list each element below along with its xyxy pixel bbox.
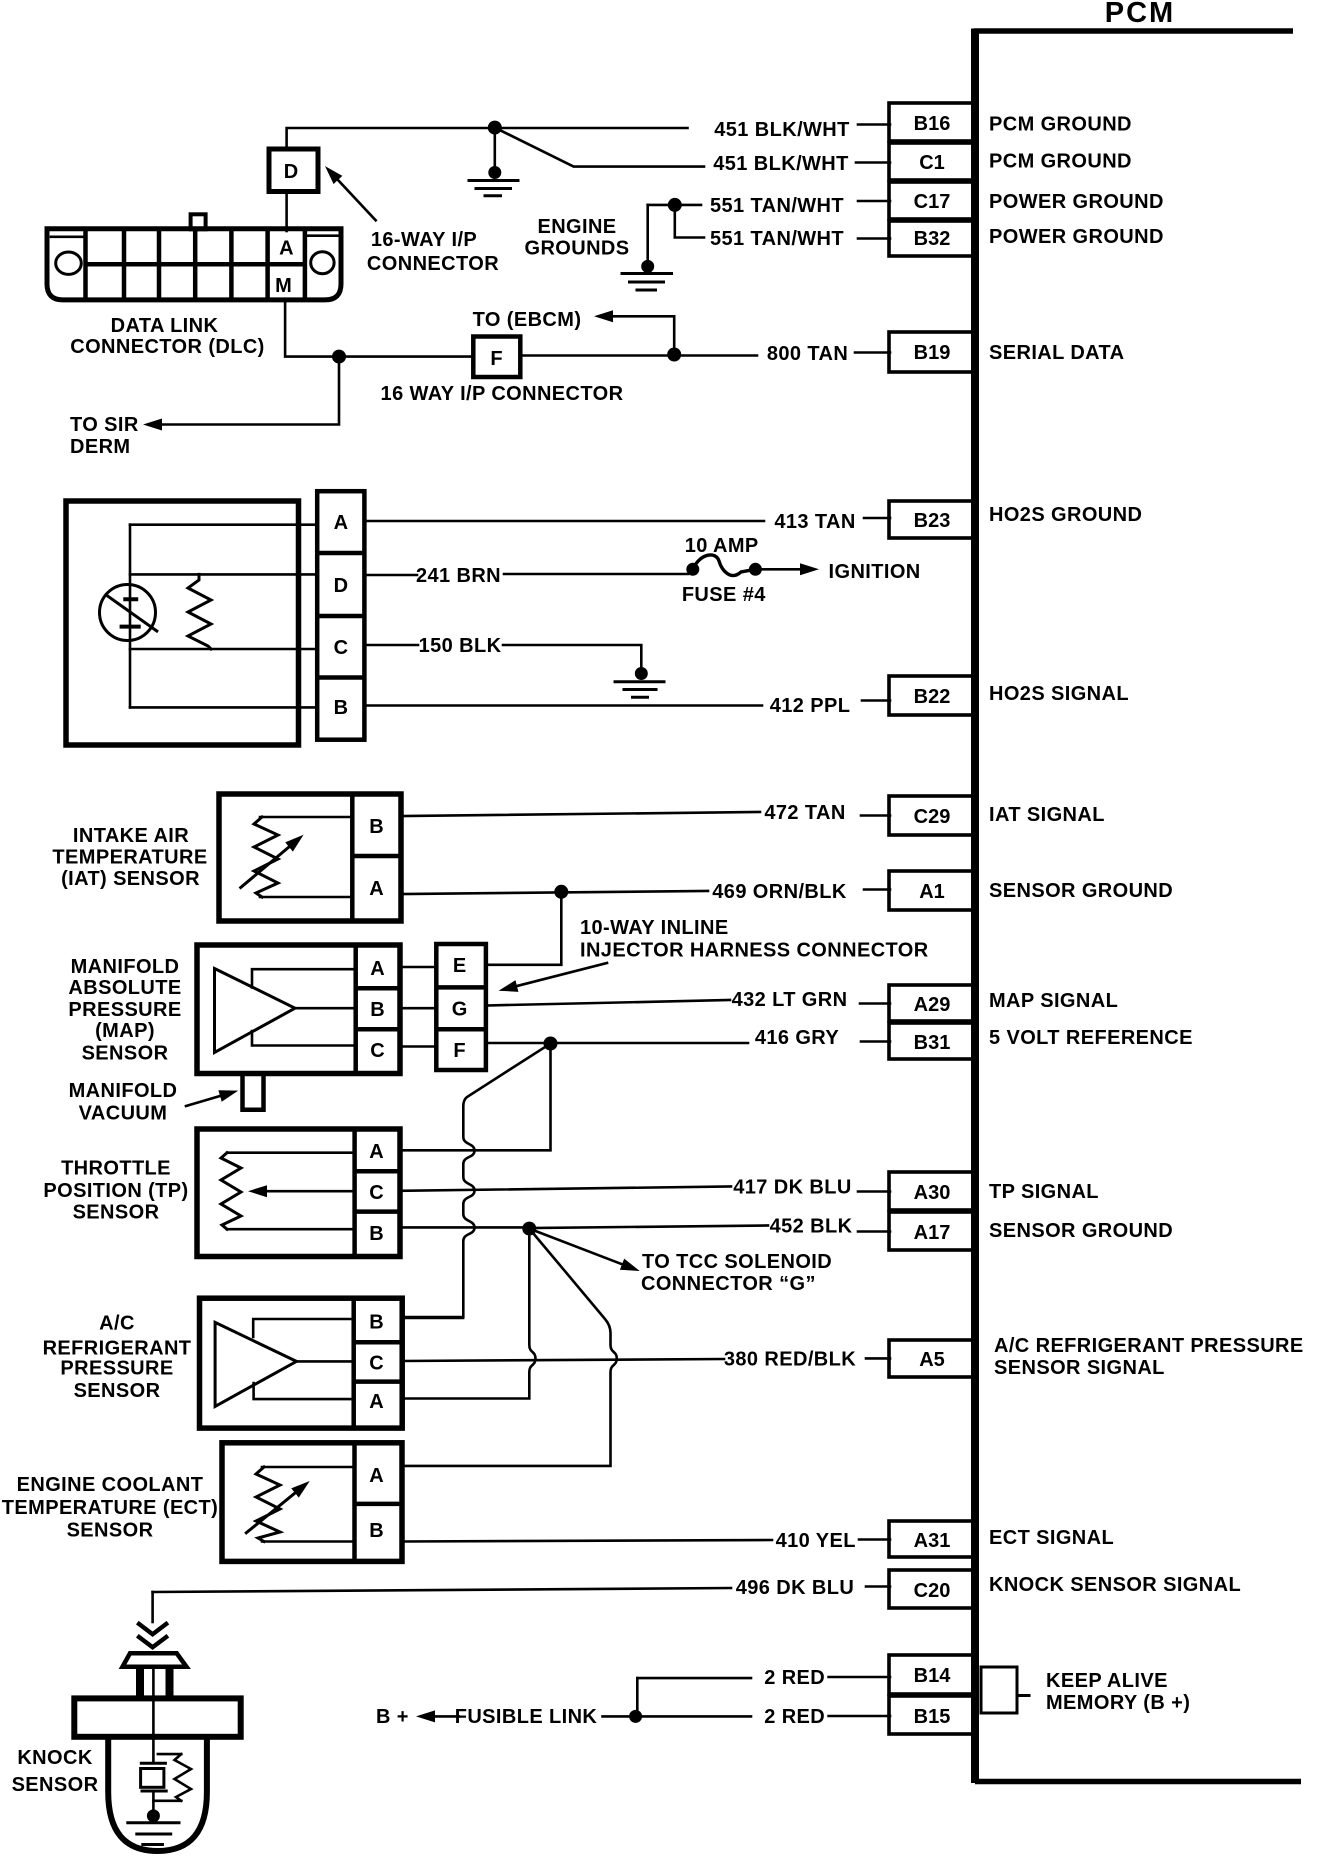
svg-text:A31: A31 bbox=[914, 1530, 951, 1552]
pointer arrow to injector harness connector bbox=[517, 963, 607, 986]
pin box C1 bbox=[889, 143, 975, 180]
pointer arrow to D box (16-WAY I/P CONNECTOR) bbox=[338, 180, 376, 220]
data link connector (DLC) body bbox=[47, 229, 341, 300]
wire D box to DLC pin A bbox=[285, 192, 288, 232]
wire MAP A to E bbox=[400, 966, 436, 969]
svg-text:A/C: A/C bbox=[99, 1313, 135, 1335]
svg-text:TO TCC SOLENOID: TO TCC SOLENOID bbox=[642, 1251, 832, 1273]
svg-text:A: A bbox=[369, 1141, 383, 1163]
svg-text:PCM GROUND: PCM GROUND bbox=[989, 114, 1132, 136]
svg-text:TEMPERATURE (ECT): TEMPERATURE (ECT) bbox=[2, 1497, 218, 1519]
svg-text:TEMPERATURE: TEMPERATURE bbox=[52, 847, 207, 869]
MAP internal wires bbox=[252, 969, 356, 1045]
TP pin strip bbox=[355, 1130, 400, 1255]
ECT pin strip bbox=[355, 1444, 403, 1561]
A/C transducer triangle bbox=[215, 1322, 296, 1406]
svg-text:IGNITION: IGNITION bbox=[829, 561, 921, 583]
MAP sensor outer box bbox=[197, 945, 400, 1074]
svg-text:MANIFOLD: MANIFOLD bbox=[69, 1080, 178, 1102]
svg-text:472 TAN: 472 TAN bbox=[764, 802, 845, 824]
junction node on 5 volt reference wire bbox=[544, 1037, 558, 1051]
svg-text:KNOCK: KNOCK bbox=[17, 1747, 92, 1769]
IAT sensor outer box bbox=[219, 794, 401, 921]
svg-text:A: A bbox=[370, 958, 384, 980]
svg-text:FUSE #4: FUSE #4 bbox=[682, 584, 766, 606]
wire 452 BLK TP pin B to A17 bbox=[400, 1226, 768, 1229]
manifold vacuum port bbox=[243, 1074, 264, 1110]
knock sensor ground bbox=[128, 1809, 179, 1844]
svg-text:A: A bbox=[369, 878, 383, 900]
wire DLC pin M to F connector bbox=[285, 299, 473, 357]
arrow to TO TCC SOLENOID CONNECTOR G bbox=[529, 1229, 622, 1265]
16-way I/P connector D box bbox=[269, 149, 318, 192]
svg-text:SENSOR GROUND: SENSOR GROUND bbox=[989, 880, 1173, 902]
pin box B22 bbox=[889, 676, 975, 715]
HO2S pin strip bbox=[317, 491, 364, 740]
knock sensor neck bbox=[140, 1667, 170, 1700]
wire 551 TAN/WHT to PCM C17 bbox=[648, 204, 701, 207]
ECT sensor outer box bbox=[222, 1443, 402, 1562]
pin box B32 bbox=[889, 221, 975, 256]
svg-text:DERM: DERM bbox=[70, 436, 131, 458]
DLC mounting ear dividers bbox=[86, 229, 305, 298]
svg-text:10-WAY INLINE: 10-WAY INLINE bbox=[580, 917, 729, 939]
svg-text:A29: A29 bbox=[914, 994, 951, 1016]
pin box B19 bbox=[889, 332, 975, 372]
svg-text:416 GRY: 416 GRY bbox=[755, 1027, 840, 1049]
svg-text:KEEP ALIVE: KEEP ALIVE bbox=[1046, 1670, 1168, 1692]
svg-text:FUSIBLE LINK: FUSIBLE LINK bbox=[455, 1706, 598, 1728]
svg-text:PRESSURE: PRESSURE bbox=[60, 1358, 173, 1380]
svg-text:GROUNDS: GROUNDS bbox=[524, 238, 629, 260]
svg-text:410 YEL: 410 YEL bbox=[776, 1530, 856, 1552]
wire 451 BLK/WHT: 16-way I/P connector D to PCM B16 bbox=[287, 128, 688, 149]
svg-text:2 RED: 2 RED bbox=[764, 1667, 825, 1689]
wire TO SIR DERM with arrow bbox=[162, 357, 339, 425]
TP sensor outer box bbox=[197, 1129, 400, 1257]
svg-text:451 BLK/WHT: 451 BLK/WHT bbox=[714, 119, 850, 141]
pin box A17 bbox=[889, 1212, 975, 1250]
DLC ear shading lines bbox=[51, 236, 339, 237]
svg-text:B: B bbox=[369, 816, 383, 838]
wire 241 BRN HO2S pin D to fuse bbox=[364, 574, 417, 577]
arrow to manifold vacuum port bbox=[186, 1096, 220, 1106]
pin box B31 bbox=[889, 1023, 975, 1059]
svg-text:INJECTOR HARNESS CONNECTOR: INJECTOR HARNESS CONNECTOR bbox=[580, 940, 929, 962]
HO2S sensor outer box bbox=[66, 501, 299, 745]
wire 451 BLK/WHT to PCM C1 bbox=[495, 128, 704, 167]
svg-text:INTAKE AIR: INTAKE AIR bbox=[73, 825, 189, 847]
svg-text:150 BLK: 150 BLK bbox=[419, 635, 502, 657]
svg-text:F: F bbox=[453, 1040, 465, 1062]
svg-text:SENSOR: SENSOR bbox=[67, 1520, 154, 1542]
MAP transducer triangle bbox=[215, 969, 296, 1053]
wire A/C pin B stub to 5V branch bbox=[402, 1317, 463, 1320]
ground (150 BLK) bbox=[615, 667, 664, 697]
pin box C29 bbox=[889, 796, 975, 835]
svg-text:MANIFOLD: MANIFOLD bbox=[71, 956, 180, 978]
HO2S sensing element circle bbox=[100, 585, 156, 641]
HO2S internal bus wire bbox=[129, 525, 132, 708]
svg-text:ENGINE: ENGINE bbox=[537, 216, 616, 238]
wire 413 TAN HO2S pin A to B23 bbox=[364, 520, 764, 523]
wire 410 YEL ECT pin B to A31 bbox=[402, 1540, 772, 1542]
fuse #4 10 amp bbox=[686, 555, 762, 576]
svg-text:THROTTLE: THROTTLE bbox=[61, 1158, 171, 1180]
svg-text:POSITION (TP): POSITION (TP) bbox=[43, 1180, 188, 1202]
knock sensor center lead bbox=[152, 1668, 155, 1763]
svg-text:C: C bbox=[334, 637, 348, 659]
svg-text:REFRIGERANT: REFRIGERANT bbox=[43, 1338, 192, 1360]
pin box B16 bbox=[889, 103, 975, 141]
pin box A30 bbox=[889, 1172, 975, 1210]
wire 417 DK BLU TP pin C to A30 bbox=[400, 1187, 731, 1191]
junction node on fusible link wire bbox=[629, 1710, 642, 1723]
svg-text:A30: A30 bbox=[914, 1182, 951, 1204]
svg-text:10 AMP: 10 AMP bbox=[685, 535, 759, 557]
A/C refrigerant pressure sensor outer box bbox=[200, 1298, 403, 1428]
svg-text:SENSOR: SENSOR bbox=[74, 1380, 161, 1402]
16 way I/P connector F box bbox=[473, 337, 520, 378]
DLC left mounting hole bbox=[56, 252, 82, 274]
pin box A29 bbox=[889, 985, 975, 1021]
svg-text:DATA LINK: DATA LINK bbox=[111, 315, 219, 337]
svg-text:C17: C17 bbox=[914, 191, 951, 213]
wire 150 BLK HO2S pin C to ground bbox=[364, 644, 418, 647]
svg-text:C1: C1 bbox=[919, 152, 945, 174]
wire sensor ground branch to ECT pin A (hop over 380 wire) bbox=[402, 1229, 617, 1466]
PCM box top edge bbox=[974, 28, 1293, 34]
svg-text:551 TAN/WHT: 551 TAN/WHT bbox=[710, 228, 844, 250]
svg-text:C20: C20 bbox=[914, 1580, 951, 1602]
svg-text:SENSOR: SENSOR bbox=[12, 1774, 99, 1796]
PCM box left edge bbox=[971, 29, 979, 1784]
svg-text:ENGINE COOLANT: ENGINE COOLANT bbox=[17, 1474, 204, 1496]
DLC top tab bbox=[191, 214, 206, 229]
svg-text:C29: C29 bbox=[914, 806, 951, 828]
wire 380 RED/BLK A/C pin C to A5 bbox=[402, 1359, 724, 1361]
svg-text:451 BLK/WHT: 451 BLK/WHT bbox=[713, 153, 849, 175]
svg-text:ABSOLUTE: ABSOLUTE bbox=[68, 977, 181, 999]
DLC pin grid bbox=[86, 229, 305, 298]
wire 5V reference branch to TP pin A bbox=[400, 1044, 551, 1151]
wire MAP C to F bbox=[400, 1045, 436, 1048]
svg-text:ECT SIGNAL: ECT SIGNAL bbox=[989, 1527, 1114, 1549]
svg-text:B: B bbox=[334, 697, 348, 719]
wire 551 TAN/WHT to PCM B32 bbox=[675, 205, 704, 238]
knock lead lower segment bbox=[152, 1791, 155, 1812]
svg-text:412 PPL: 412 PPL bbox=[770, 695, 851, 717]
HO2S heater resistor bbox=[188, 574, 211, 649]
svg-text:SENSOR: SENSOR bbox=[82, 1043, 169, 1065]
HO2S pin D internal wire bbox=[130, 573, 317, 576]
wire 496 DK BLU knock sensor to C20 bbox=[153, 1588, 731, 1592]
svg-text:SERIAL DATA: SERIAL DATA bbox=[989, 342, 1125, 364]
svg-text:C: C bbox=[370, 1040, 384, 1062]
wire sensor ground branch to A/C pin A (hop over 380 wire) bbox=[402, 1229, 536, 1399]
junction node on sensor ground (452 BLK) bbox=[522, 1222, 536, 1236]
svg-text:B23: B23 bbox=[914, 510, 951, 532]
HO2S element slash bbox=[106, 595, 157, 631]
wire 5V reference branch to A/C pin B (crossover hops) bbox=[402, 1044, 551, 1318]
10-way inline injector harness connector E G F bbox=[436, 944, 486, 1070]
wire 416 GRY F to B31 bbox=[486, 1042, 748, 1045]
svg-text:B15: B15 bbox=[914, 1706, 951, 1728]
wire 412 PPL HO2S pin B to B22 bbox=[364, 704, 762, 707]
svg-text:B16: B16 bbox=[914, 113, 951, 135]
svg-text:B19: B19 bbox=[914, 342, 951, 364]
junction node on sensor ground wire bbox=[554, 885, 568, 899]
svg-text:MAP SIGNAL: MAP SIGNAL bbox=[989, 990, 1118, 1012]
arrow B+ fusible link bbox=[603, 1715, 634, 1718]
svg-text:D: D bbox=[334, 575, 348, 597]
svg-text:SENSOR: SENSOR bbox=[73, 1202, 160, 1224]
pin box C17 bbox=[889, 182, 975, 219]
IAT thermistor bbox=[241, 817, 353, 897]
svg-text:C: C bbox=[369, 1182, 383, 1204]
svg-text:A1: A1 bbox=[919, 881, 945, 903]
wire 800 TAN serial data F to B19 bbox=[521, 354, 758, 357]
wire 472 TAN IAT pin B to C29 bbox=[401, 812, 760, 816]
HO2S pin A internal wire bbox=[130, 523, 317, 526]
svg-text:B: B bbox=[369, 1223, 383, 1245]
arrow to IGNITION bbox=[755, 568, 800, 571]
A/C internal wires bbox=[253, 1319, 354, 1399]
engine ground 2 (551 circuit) bbox=[622, 205, 672, 290]
pin box A1 bbox=[889, 871, 975, 910]
svg-text:B31: B31 bbox=[914, 1032, 951, 1054]
HO2S pin C internal wire bbox=[130, 648, 317, 651]
HO2S pin B internal wire bbox=[130, 706, 317, 709]
svg-text:A: A bbox=[369, 1391, 383, 1413]
IAT pin strip bbox=[352, 795, 401, 920]
svg-text:D: D bbox=[284, 161, 298, 183]
svg-text:800 TAN: 800 TAN bbox=[767, 343, 848, 365]
junction node on serial data wire bbox=[667, 348, 681, 362]
wire 469 ORN/BLK IAT pin A to A1 bbox=[401, 891, 708, 894]
MAP pin strip bbox=[356, 946, 400, 1072]
svg-text:TO (EBCM): TO (EBCM) bbox=[473, 309, 582, 331]
svg-text:PCM GROUND: PCM GROUND bbox=[989, 151, 1132, 173]
knock piezo element box bbox=[141, 1769, 164, 1788]
svg-text:TO SIR: TO SIR bbox=[70, 414, 139, 436]
svg-text:496 DK BLU: 496 DK BLU bbox=[736, 1577, 854, 1599]
svg-text:551 TAN/WHT: 551 TAN/WHT bbox=[710, 195, 844, 217]
knock sensor body shell bbox=[108, 1737, 207, 1851]
svg-text:A/C REFRIGERANT PRESSURE: A/C REFRIGERANT PRESSURE bbox=[994, 1335, 1304, 1357]
pin box B14 bbox=[889, 1655, 975, 1694]
svg-text:B: B bbox=[370, 999, 384, 1021]
wire MAP B to G bbox=[400, 1007, 436, 1010]
svg-text:16 WAY I/P CONNECTOR: 16 WAY I/P CONNECTOR bbox=[381, 383, 624, 405]
wire corner down to fusible link line bbox=[636, 1678, 639, 1716]
junction node on 451 wire bbox=[488, 121, 502, 135]
knock internal resistor bbox=[153, 1754, 191, 1801]
svg-text:PCM: PCM bbox=[1105, 0, 1175, 29]
svg-text:417 DK BLU: 417 DK BLU bbox=[733, 1177, 851, 1199]
svg-text:KNOCK SENSOR SIGNAL: KNOCK SENSOR SIGNAL bbox=[989, 1574, 1241, 1596]
junction node on 551 wire bbox=[668, 198, 682, 212]
svg-text:CONNECTOR “G”: CONNECTOR “G” bbox=[641, 1273, 816, 1295]
svg-text:CONNECTOR (DLC): CONNECTOR (DLC) bbox=[70, 336, 265, 358]
svg-text:A: A bbox=[279, 238, 293, 260]
knock sensor feed wire bbox=[151, 1592, 154, 1622]
knock sensor flange bbox=[74, 1698, 240, 1736]
keep alive memory bracket bbox=[981, 1667, 1029, 1713]
svg-text:SENSOR SIGNAL: SENSOR SIGNAL bbox=[994, 1357, 1165, 1379]
svg-text:E: E bbox=[453, 955, 466, 977]
pin box B15 bbox=[889, 1696, 975, 1734]
svg-text:MEMORY (B +): MEMORY (B +) bbox=[1046, 1692, 1190, 1714]
svg-text:5 VOLT REFERENCE: 5 VOLT REFERENCE bbox=[989, 1027, 1193, 1049]
svg-text:B14: B14 bbox=[914, 1665, 952, 1687]
svg-text:G: G bbox=[452, 999, 468, 1021]
svg-text:F: F bbox=[490, 348, 502, 370]
svg-text:TP SIGNAL: TP SIGNAL bbox=[989, 1181, 1099, 1203]
wire 2 RED to B14 bbox=[637, 1677, 751, 1680]
A/C pin strip bbox=[354, 1299, 402, 1427]
engine ground 1 (451 circuit) bbox=[469, 128, 518, 196]
svg-text:POWER GROUND: POWER GROUND bbox=[989, 191, 1164, 213]
ECT thermistor bbox=[246, 1467, 354, 1542]
svg-text:A: A bbox=[369, 1465, 383, 1487]
svg-text:432 LT GRN: 432 LT GRN bbox=[732, 989, 848, 1011]
knock sensor cap bbox=[123, 1653, 187, 1667]
svg-text:A5: A5 bbox=[919, 1349, 945, 1371]
wire TO (EBCM) with arrow bbox=[613, 316, 674, 354]
pin box B23 bbox=[889, 501, 975, 538]
svg-text:413 TAN: 413 TAN bbox=[774, 511, 855, 533]
svg-text:HO2S SIGNAL: HO2S SIGNAL bbox=[989, 683, 1129, 705]
svg-text:CONNECTOR: CONNECTOR bbox=[367, 253, 499, 275]
svg-text:VACUUM: VACUUM bbox=[79, 1103, 168, 1125]
svg-text:SENSOR GROUND: SENSOR GROUND bbox=[989, 1220, 1173, 1242]
DLC right mounting hole bbox=[311, 252, 334, 274]
svg-text:HO2S GROUND: HO2S GROUND bbox=[989, 504, 1142, 526]
svg-text:469 ORN/BLK: 469 ORN/BLK bbox=[712, 881, 847, 903]
svg-text:452 BLK: 452 BLK bbox=[770, 1216, 853, 1238]
svg-text:(MAP): (MAP) bbox=[95, 1020, 155, 1042]
svg-text:C: C bbox=[369, 1353, 383, 1375]
pin box C20 bbox=[889, 1570, 975, 1608]
svg-text:M: M bbox=[275, 275, 292, 297]
junction node (serial data branch) bbox=[332, 350, 346, 364]
svg-text:B: B bbox=[369, 1312, 383, 1334]
svg-text:B22: B22 bbox=[914, 686, 951, 708]
svg-text:IAT SIGNAL: IAT SIGNAL bbox=[989, 804, 1105, 826]
svg-text:2 RED: 2 RED bbox=[764, 1706, 825, 1728]
wire 2 RED to B15 bbox=[636, 1715, 751, 1718]
pin box A31 bbox=[889, 1521, 975, 1557]
svg-text:380 RED/BLK: 380 RED/BLK bbox=[724, 1349, 856, 1371]
svg-text:B +: B + bbox=[376, 1706, 409, 1728]
wire 432 LT GRN G to A29 bbox=[486, 1000, 730, 1006]
svg-text:POWER GROUND: POWER GROUND bbox=[989, 226, 1164, 248]
svg-text:PRESSURE: PRESSURE bbox=[68, 999, 181, 1021]
svg-text:A17: A17 bbox=[914, 1222, 951, 1244]
svg-text:B: B bbox=[369, 1520, 383, 1542]
knock sensor arrow chevrons bbox=[137, 1623, 168, 1648]
TP potentiometer bbox=[221, 1153, 355, 1230]
wire sensor ground branch to injector connector E bbox=[486, 892, 561, 965]
svg-text:(IAT) SENSOR: (IAT) SENSOR bbox=[61, 868, 200, 890]
knock piezo element plates bbox=[141, 1763, 166, 1791]
HO2S element minus marks bbox=[120, 599, 141, 626]
svg-text:A: A bbox=[334, 512, 348, 534]
svg-text:16-WAY I/P: 16-WAY I/P bbox=[371, 229, 477, 251]
svg-text:B32: B32 bbox=[914, 228, 951, 250]
pin box A5 bbox=[889, 1340, 975, 1377]
PCM box bottom edge bbox=[975, 1779, 1301, 1785]
svg-text:241 BRN: 241 BRN bbox=[416, 565, 501, 587]
